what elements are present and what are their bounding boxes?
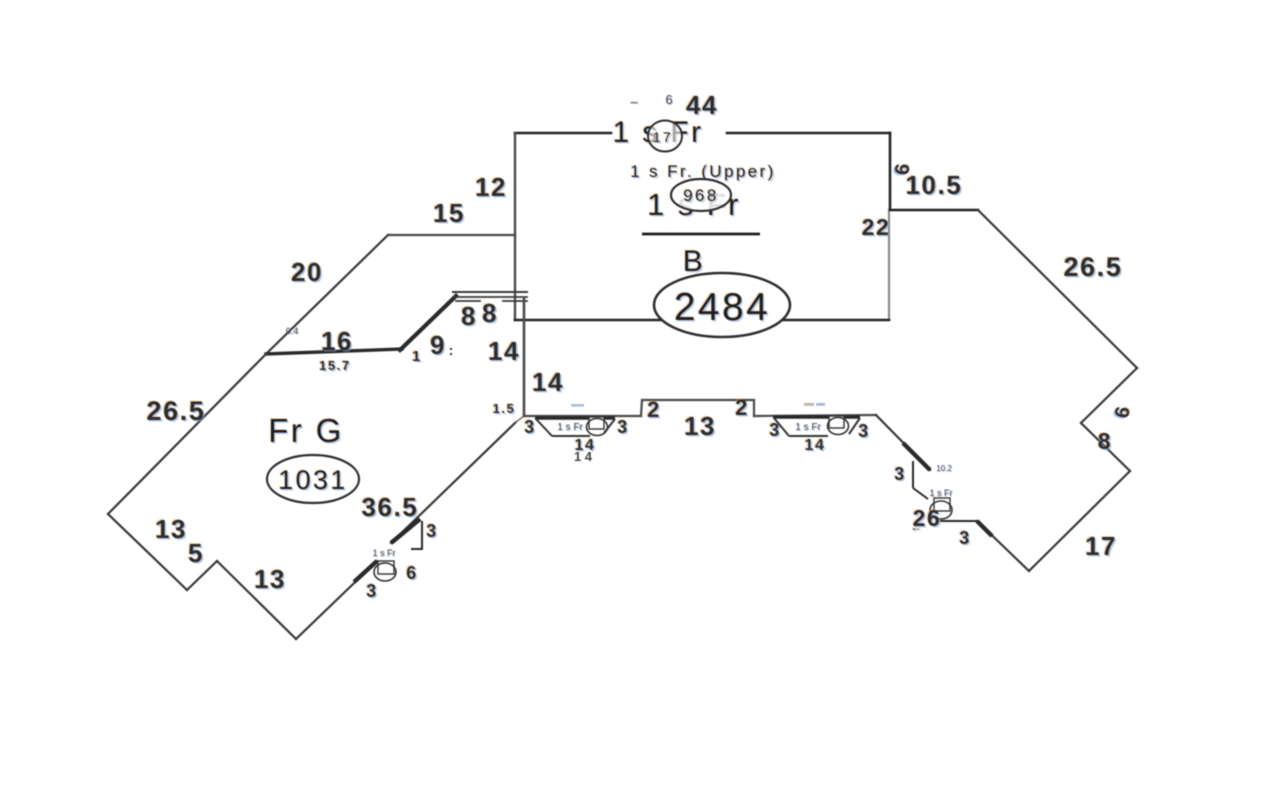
wire 1.5 segment	[516, 416, 524, 422]
wire thick diagonal step	[400, 296, 456, 350]
svg-text:14: 14	[532, 367, 564, 397]
svg-text:16: 16	[321, 326, 353, 356]
svg-text:3: 3	[366, 581, 378, 601]
porch right tiny box	[829, 416, 844, 428]
wire B left edge	[514, 133, 516, 320]
wire B inner right edge	[888, 210, 890, 318]
porch left trapezoid	[535, 418, 615, 436]
ghost dash above left porch	[571, 404, 584, 407]
svg-text:12: 12	[475, 172, 507, 202]
svg-text:0.4: 0.4	[286, 326, 299, 336]
wire 26.5 left diagonal	[108, 354, 266, 514]
svg-text:Fr G: Fr G	[268, 412, 344, 449]
wire 20 diagonal	[267, 235, 388, 353]
svg-text:22: 22	[862, 214, 891, 240]
svg-text:2: 2	[735, 395, 749, 420]
svg-text:20: 20	[291, 257, 323, 287]
wire dash a	[456, 300, 480, 302]
wire 16 line	[266, 349, 402, 354]
area ellipse 1031	[267, 455, 359, 503]
svg-text:1 4: 1 4	[574, 449, 593, 464]
porch right tiny ellipse	[828, 418, 849, 435]
wire interior vertical 14	[523, 298, 526, 416]
svg-text:3: 3	[524, 417, 536, 437]
wire top edge B right part	[727, 132, 890, 135]
wire dash b	[503, 300, 527, 302]
svg-text:1031: 1031	[278, 465, 348, 495]
svg-text:13: 13	[684, 411, 716, 441]
svg-text:17: 17	[1085, 531, 1117, 561]
wire top edge B left part	[515, 132, 611, 135]
svg-text:13: 13	[254, 564, 286, 594]
svg-text:3: 3	[426, 521, 438, 541]
wire 26.5 right diagonal	[978, 210, 1137, 368]
svg-text:6: 6	[406, 563, 418, 583]
wire B right edge upper	[889, 133, 892, 209]
svg-text:14: 14	[488, 336, 520, 366]
wire right wing top	[890, 209, 978, 212]
wire 15 line	[388, 234, 515, 236]
svg-text:1: 1	[412, 348, 422, 365]
wire double horizontal mid	[453, 296, 527, 298]
wire bottom edge right	[754, 415, 876, 416]
svg-text:9: 9	[430, 330, 446, 360]
svg-text:3: 3	[769, 420, 781, 440]
wire 5 diagonal	[187, 561, 217, 590]
svg-text:6: 6	[665, 92, 672, 107]
wire double horizontal top	[453, 291, 527, 293]
svg-text:8: 8	[482, 298, 498, 328]
svg-text:13: 13	[155, 514, 187, 544]
svg-text:17: 17	[653, 129, 673, 145]
svg-text:44: 44	[686, 90, 718, 120]
wire 17 diagonal	[1029, 471, 1130, 571]
svg-text:8: 8	[1098, 428, 1112, 454]
svg-text:–: –	[630, 94, 638, 109]
area ellipse 968	[671, 179, 731, 211]
area ellipse 2484	[654, 273, 790, 337]
wire step up left	[641, 400, 754, 416]
svg-text:14: 14	[805, 437, 826, 454]
svg-text:968: 968	[683, 186, 719, 205]
svg-text:15: 15	[433, 198, 465, 228]
svg-text:26.5: 26.5	[147, 396, 206, 426]
porch right trapezoid	[773, 417, 860, 436]
porch left tiny box	[589, 417, 604, 429]
svg-text:26.5: 26.5	[1064, 252, 1123, 282]
svg-text:8: 8	[461, 301, 477, 331]
right bump porch on 26 diagonal	[903, 443, 992, 536]
wire 8 right diagonal	[1081, 423, 1130, 471]
svg-text:3: 3	[858, 421, 870, 441]
svg-text:3: 3	[894, 464, 906, 484]
porch left tiny ellipse	[587, 419, 608, 436]
svg-text:2: 2	[647, 397, 661, 422]
svg-text::: :	[449, 342, 454, 358]
svg-text:2484: 2484	[674, 286, 770, 329]
right bump tiny ellipse	[930, 501, 952, 519]
svg-text:10.5: 10.5	[905, 170, 962, 200]
wire 26 diagonal lower part	[977, 521, 1029, 571]
wire 36.5 diagonal upper part	[391, 422, 516, 543]
svg-text:1.5: 1.5	[493, 401, 516, 416]
svg-text:10.2: 10.2	[936, 464, 952, 473]
wire 13 left diagonal	[108, 514, 187, 590]
svg-text:15.7: 15.7	[319, 358, 351, 373]
wire 9 right diagonal	[1081, 368, 1137, 423]
left bump tiny box	[378, 561, 394, 574]
area ellipse 17	[648, 121, 682, 152]
wire 26 diagonal upper part	[876, 415, 930, 470]
svg-text:1 s Fr: 1 s Fr	[929, 488, 952, 498]
svg-text:1 s Fr: 1 s Fr	[557, 422, 583, 433]
fraction bar	[642, 233, 760, 236]
svg-text:3: 3	[959, 528, 971, 548]
wire 13 second diagonal	[217, 561, 296, 639]
svg-text:36.5: 36.5	[361, 492, 418, 522]
left bump porch on 36.5 diagonal	[354, 519, 423, 582]
ghost dash above right porch	[804, 403, 814, 406]
svg-text:B: B	[683, 245, 705, 278]
svg-text:5: 5	[188, 538, 204, 568]
svg-text:1 s Fr: 1 s Fr	[372, 548, 395, 558]
wire B bottom edge	[515, 319, 889, 322]
svg-text:←: ←	[910, 520, 924, 534]
svg-text:3: 3	[617, 417, 629, 437]
wire 36.5 diagonal lower part	[296, 561, 377, 639]
wire bottom edge left	[524, 415, 641, 417]
left bump tiny ellipse	[374, 563, 396, 581]
right bump tiny box	[934, 498, 950, 511]
svg-text:1 s Fr: 1 s Fr	[795, 422, 821, 433]
